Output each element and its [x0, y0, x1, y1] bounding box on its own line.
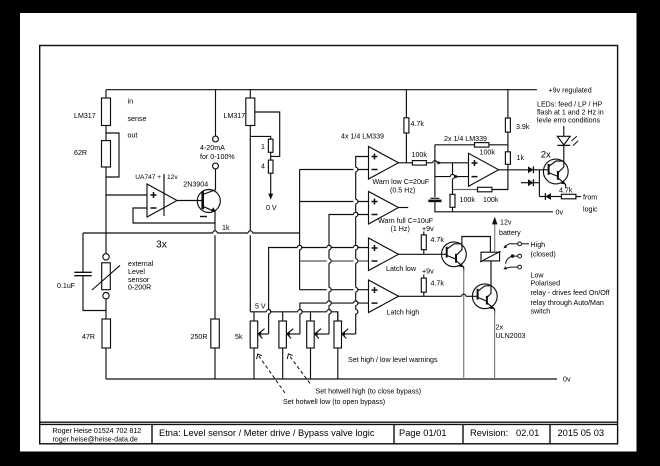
svg-text:levle erro conditions: levle erro conditions: [537, 117, 601, 125]
resistor 4.7k latch high pull-up: [421, 268, 444, 297]
svg-text:for 0-100%: for 0-100%: [200, 153, 235, 161]
svg-text:4: 4: [261, 163, 265, 171]
svg-text:Set hotwell low (to open bypas: Set hotwell low (to open bypass): [283, 398, 385, 406]
wire between divider: [270, 152, 272, 160]
resistor 1k osc: [505, 145, 524, 170]
svg-text:4.7k: 4.7k: [411, 120, 425, 128]
wire comp3 output to driver: [399, 253, 447, 255]
svg-text:switch: switch: [531, 308, 551, 316]
svg-text:battery: battery: [499, 229, 521, 237]
wire Darl2 emitter to rail: [494, 311, 496, 379]
border frame: [40, 46, 618, 444]
svg-text:4x 1/4 LM339: 4x 1/4 LM339: [341, 133, 384, 141]
capacitor osc C: [428, 198, 441, 201]
comparator U2d latch high: [369, 280, 420, 317]
comparator U2a warn low: [341, 133, 430, 195]
svg-text:5k: 5k: [235, 333, 243, 341]
LED LED1: [557, 126, 578, 161]
svg-text:High: High: [531, 241, 546, 249]
svg-text:5 V: 5 V: [255, 303, 266, 311]
wire comp3 minus line: [300, 260, 369, 262]
wire op-amp + input: [106, 194, 147, 196]
svg-text:3.9k: 3.9k: [516, 123, 530, 131]
arrow set hotwell high: [287, 354, 421, 396]
resistor 100k comp1 out: [412, 151, 428, 165]
regulator LM317 (left): [74, 98, 146, 140]
svg-text:ULN2003: ULN2003: [496, 332, 526, 340]
transistor Darlington driver 2: [472, 284, 525, 340]
transistor Darlington LED driver: [543, 159, 568, 188]
transistor Q1 2N3904: [183, 181, 220, 217]
diode D2 second channel: [521, 179, 539, 186]
op-amp UA747 label: [135, 174, 178, 181]
diode D1: [528, 166, 549, 173]
svg-text:external: external: [128, 260, 154, 268]
svg-text:in: in: [128, 98, 134, 106]
svg-text:0-200R: 0-200R: [128, 284, 151, 292]
switch contacts high low: [503, 241, 609, 316]
svg-text:LEDs: feed / LP / HP: LEDs: feed / LP / HP: [537, 101, 603, 109]
wire LM317 out vertical: [248, 126, 252, 312]
wire 1k sensor line: [83, 224, 300, 233]
svg-text:(0.5 Hz): (0.5 Hz): [390, 186, 415, 194]
wire collector to test point: [215, 169, 217, 190]
svg-text:Low: Low: [531, 272, 545, 280]
wire comp4 plus line: [300, 289, 369, 291]
potentiometer 5k P4: [334, 312, 356, 379]
wire +9v top bus: [106, 89, 537, 91]
wire V2 pot P3 wiper to comp2 minus: [329, 212, 369, 334]
svg-text:2x 1/4 LM339: 2x 1/4 LM339: [444, 135, 487, 143]
sensor RV1 external level sensor: [92, 254, 154, 299]
wire osc top feedback: [435, 144, 508, 146]
transistor Darlington driver 1: [442, 242, 467, 271]
svg-text:Warn low C=20uF: Warn low C=20uF: [373, 178, 430, 186]
svg-text:from: from: [583, 194, 597, 202]
svg-text:2N3904: 2N3904: [183, 181, 208, 189]
resistor 4.7k latch low pull-up: [421, 225, 444, 254]
label 3x: [156, 240, 168, 251]
wire sense bracket: [106, 133, 119, 177]
node test point circles 4-20mA: [200, 90, 235, 169]
svg-text:0v: 0v: [563, 376, 571, 384]
potentiometer 5k P3: [307, 312, 329, 379]
wire left main vertical: [105, 90, 107, 379]
potentiometer 5k P1: [235, 312, 269, 379]
resistor 1: [261, 139, 273, 152]
wire LM317 sense branch: [255, 112, 280, 156]
potentiometer 5k P2: [279, 312, 300, 379]
svg-text:(closed): (closed): [531, 250, 556, 258]
diode D3 from logic: [539, 193, 561, 200]
resistor 250R: [191, 319, 220, 379]
svg-text:logic: logic: [583, 206, 598, 214]
svg-text:Set hotwell high (to close byp: Set hotwell high (to close bypass): [316, 388, 422, 396]
node +9v regulated label: [549, 87, 592, 95]
svg-text:2x: 2x: [496, 324, 504, 332]
svg-text:4-20mA: 4-20mA: [200, 144, 225, 152]
wire op-amp output to base: [177, 200, 202, 202]
wire 5V rail: [250, 303, 337, 322]
svg-text:250R: 250R: [191, 333, 208, 341]
svg-text:12v: 12v: [500, 219, 512, 227]
wire Darl1 collector to relay: [462, 237, 491, 253]
label set warnings: [348, 356, 438, 364]
resistor 3.9k: [505, 90, 529, 145]
comparator U3 oscillator: [469, 153, 499, 186]
wire osc hysteresis vertical: [453, 163, 455, 195]
svg-text:Polarised: Polarised: [531, 280, 561, 288]
svg-text:roger.heise@heise-data.de: roger.heise@heise-data.de: [53, 435, 138, 443]
svg-text:sense: sense: [128, 115, 147, 123]
resistor 62R: [74, 141, 111, 167]
svg-text:0 V: 0 V: [266, 204, 277, 212]
op-amp U1 triangle: [147, 174, 177, 217]
capacitor C1 0.1uF: [57, 233, 106, 311]
wire V3 pot P4 wiper to comp1 plus: [356, 157, 369, 335]
resistor 47R: [82, 319, 111, 348]
ground 0V arrow: [266, 173, 277, 212]
svg-text:Level: Level: [128, 268, 145, 276]
resistor 100k osc to gnd: [450, 194, 475, 212]
resistor 4.7k pull-up comp1: [404, 90, 424, 163]
wire pot P2 wiper to comp4 minus: [300, 301, 369, 334]
svg-text:1: 1: [261, 143, 265, 151]
label 2x: [541, 149, 551, 160]
svg-text:+9v: +9v: [422, 268, 434, 276]
wire pot P1 wiper to comp3: [269, 245, 369, 334]
resistor 100k osc top: [475, 143, 496, 157]
svg-text:LM317: LM317: [224, 112, 246, 120]
svg-text:(1 Hz): (1 Hz): [391, 225, 410, 233]
wire osc output: [499, 169, 528, 171]
svg-text:out: out: [128, 131, 138, 139]
wire comp4 output to driver 2: [399, 294, 478, 296]
svg-text:0.1uF: 0.1uF: [57, 282, 76, 290]
wire op-amp feedback: [133, 208, 215, 223]
svg-text:4.7k: 4.7k: [431, 236, 445, 244]
svg-text:100k: 100k: [480, 149, 496, 157]
svg-text:Latch high: Latch high: [387, 309, 420, 317]
svg-text:1k: 1k: [222, 224, 230, 232]
wire emitter down to 250R: [213, 223, 217, 319]
wire bottom rail 0v: [106, 376, 571, 384]
comparator U2b warn full: [369, 192, 434, 233]
label LEDs text: [537, 101, 604, 125]
wire adj tap: [250, 136, 270, 139]
resistor 100k osc feedback2: [478, 187, 499, 204]
resistor 4: [261, 160, 273, 173]
wire V1 signal bus: [300, 170, 302, 290]
wire Darl1 emitter to rail: [463, 269, 465, 379]
svg-text:+9v regulated: +9v regulated: [549, 87, 592, 95]
title block text: [53, 427, 605, 443]
arrow set hotwell low: [257, 354, 386, 406]
wire osc minus vertical with cap: [435, 145, 564, 217]
svg-text:Latch low: Latch low: [386, 265, 417, 273]
svg-text:47R: 47R: [82, 333, 95, 341]
label 2x 1/4 LM339: [444, 135, 487, 143]
svg-text:0v: 0v: [556, 209, 564, 217]
svg-text:UA747 + - 12v: UA747 + - 12v: [135, 174, 178, 181]
resistor 4.7k from logic: [559, 186, 598, 213]
svg-text:Warn full C=10uF: Warn full C=10uF: [378, 217, 434, 225]
svg-text:2x: 2x: [541, 149, 551, 160]
svg-text:100k: 100k: [483, 196, 499, 204]
svg-text:Roger Heise 01524 702 812: Roger Heise 01524 702 812: [53, 427, 142, 435]
svg-text:100k: 100k: [460, 196, 476, 204]
relay K1: [480, 251, 501, 262]
svg-text:1k: 1k: [517, 154, 525, 162]
svg-text:flash at 1 and 2 Hz in: flash at 1 and 2 Hz in: [537, 109, 604, 117]
svg-text:62R: 62R: [74, 149, 87, 157]
svg-text:LM317: LM317: [74, 112, 96, 120]
svg-text:100k: 100k: [412, 151, 428, 159]
wire Darl2 collector to relay: [490, 261, 492, 286]
svg-text:4.7k: 4.7k: [431, 280, 445, 288]
wire to osc plus: [426, 161, 468, 165]
svg-text:Page 01/01: Page 01/01: [399, 428, 447, 438]
svg-text:2015 05 03: 2015 05 03: [558, 428, 605, 438]
wire comp1 output: [399, 162, 413, 164]
regulator LM317 (right): [224, 90, 255, 126]
battery 12v arrow: [492, 217, 521, 252]
svg-text:relay through Auto/Man: relay through Auto/Man: [531, 299, 604, 307]
svg-text:relay - drives feed On/Off: relay - drives feed On/Off: [531, 289, 610, 297]
svg-text:Etna: Level sensor / Meter dri: Etna: Level sensor / Meter drive / Bypas…: [159, 428, 375, 438]
svg-text:Set high / low level warnings: Set high / low level warnings: [348, 356, 438, 364]
wire osc minus input line: [435, 174, 469, 178]
wire comp1 minus line: [300, 169, 369, 171]
svg-text:3x: 3x: [156, 240, 168, 251]
comparator U2c latch low: [369, 238, 417, 273]
wire comp2 plus line: [300, 201, 369, 203]
wire osc bottom feedback: [453, 170, 508, 190]
svg-text:Revision: 02.01: Revision: 02.01: [470, 428, 539, 438]
wire junction down: [538, 170, 540, 197]
